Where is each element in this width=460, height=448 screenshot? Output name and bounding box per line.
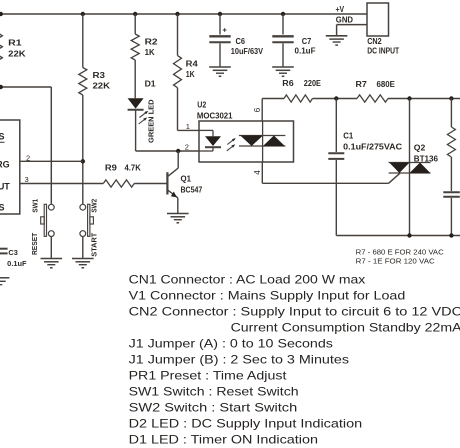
svg-text:1K: 1K	[186, 70, 195, 79]
junction dot Q2 top	[407, 96, 411, 100]
resistor R1 value 22K	[8, 50, 26, 59]
svg-text:SW2 Switch : Start Switch: SW2 Switch : Start Switch	[129, 400, 298, 414]
svg-text:S: S	[0, 132, 5, 142]
wire R9 to Q1 base	[134, 183, 167, 185]
wire U2 pin6 up	[261, 99, 263, 122]
svg-text:GREEN LED: GREEN LED	[147, 99, 156, 143]
capacitor C6 plus sign	[223, 28, 227, 32]
LED D1 label GREEN LED	[147, 99, 156, 143]
wire U2 pin4 down	[261, 162, 263, 183]
resistor R2	[131, 34, 139, 60]
svg-text:CN2: CN2	[367, 37, 382, 46]
pin 6 label U2	[253, 107, 262, 112]
svg-text:1: 1	[186, 122, 190, 131]
svg-text:R9: R9	[105, 164, 118, 173]
capacitor C7 value 0.1uF	[295, 47, 316, 56]
wire D1/Q1 to U2 pin2	[136, 150, 199, 152]
junction dot C1 top	[334, 96, 338, 100]
svg-text:BT136: BT136	[414, 154, 439, 163]
capacitor C1 value 0.1uF/275VAC	[343, 142, 402, 151]
wire rail R7 right	[388, 98, 460, 100]
switch SW2 label	[89, 199, 98, 213]
resistor R6 label	[282, 79, 294, 88]
capacitor C7 label	[302, 37, 312, 46]
switch SW1 actuator	[41, 204, 47, 236]
wire bottom rail	[336, 235, 460, 237]
pin 2 label U2	[185, 142, 189, 151]
junction dot R3 top	[81, 12, 85, 16]
capacitor C7	[272, 14, 293, 67]
pin 4 label U2	[253, 170, 262, 175]
svg-text:DC INPUT: DC INPUT	[367, 47, 399, 56]
connector CN2 box	[367, 3, 389, 36]
ground SW1	[41, 259, 63, 268]
svg-text:GND: GND	[336, 15, 353, 25]
svg-text:CN2 Connector : Supply Input t: CN2 Connector : Supply Input to circuit …	[129, 304, 460, 318]
ground SW2	[72, 259, 94, 268]
svg-text:Current Consumption Standby 22: Current Consumption Standby 22mA	[231, 320, 460, 334]
wire R4 to U2 pin1	[178, 88, 200, 131]
capacitor C6 value 10uF/63V	[231, 47, 264, 56]
transistor Q1 collector	[168, 151, 179, 176]
svg-text:C6: C6	[236, 37, 246, 46]
capacitor C1	[328, 99, 344, 236]
svg-text:680E: 680E	[377, 80, 396, 89]
svg-text:4.7K: 4.7K	[125, 164, 142, 173]
svg-text:22K: 22K	[93, 82, 111, 91]
junction dot C6 top	[218, 12, 222, 16]
svg-text:V1 Connector : Mains Supply In: V1 Connector : Mains Supply Input for Lo…	[129, 288, 406, 302]
svg-text:CN1 Connector : AC Load 200 W: CN1 Connector : AC Load 200 W max	[129, 272, 366, 286]
resistor R1 label	[8, 39, 22, 48]
diode D1 label	[145, 80, 157, 89]
svg-text:PR1 Preset : Time Adjust: PR1 Preset : Time Adjust	[129, 368, 288, 382]
switch SW2 actuator	[88, 204, 94, 236]
wire U2 pin4 to Q2 gate	[262, 173, 400, 183]
svg-text:0.1uF: 0.1uF	[7, 259, 27, 268]
svg-text:U2: U2	[197, 101, 206, 110]
resistor R7 label	[356, 80, 368, 89]
svg-text:R7 - 680 E FOR 240 VAC: R7 - 680 E FOR 240 VAC	[356, 247, 444, 256]
svg-text:4: 4	[253, 170, 262, 175]
svg-text:R4: R4	[186, 60, 199, 69]
pin 3 label U1	[25, 175, 29, 184]
svg-text:START: START	[89, 232, 98, 256]
connector CN2 value DC INPUT	[367, 47, 399, 56]
svg-text:BC547: BC547	[181, 186, 203, 195]
wire SW1 to ground	[50, 237, 52, 259]
svg-text:3: 3	[25, 175, 29, 184]
svg-text:J1 Jumper (B) : 2 Sec to 3 Min: J1 Jumper (B) : 2 Sec to 3 Minutes	[129, 352, 349, 366]
resistor R9	[103, 180, 134, 187]
svg-text:D1: D1	[145, 80, 157, 89]
resistor R2 label	[145, 38, 159, 47]
svg-text:6: 6	[253, 107, 262, 112]
ground C3 (cut off)	[0, 278, 9, 285]
junction dot R1 bottom	[0, 85, 3, 89]
svg-text:UT: UT	[0, 182, 10, 192]
svg-text:0.1uF/275VAC: 0.1uF/275VAC	[343, 142, 402, 151]
svg-text:22K: 22K	[8, 50, 26, 59]
resistor R6 value 220E	[304, 79, 322, 88]
svg-text:R7: R7	[356, 80, 368, 89]
capacitor C6	[209, 14, 230, 67]
resistor R7 value 680E	[377, 80, 396, 89]
wire R2 top lead	[134, 14, 136, 34]
svg-text:220E: 220E	[304, 79, 322, 88]
wire rail R6 left	[262, 98, 284, 100]
wire top +V rail	[0, 13, 367, 15]
resistor snubber (cut off)	[447, 99, 455, 192]
svg-text:SW1 Switch : Reset Switch: SW1 Switch : Reset Switch	[129, 384, 299, 398]
U1 pin label DIS	[0, 132, 5, 143]
resistor R7	[357, 95, 388, 102]
resistor R4	[174, 56, 182, 88]
transistor Q1 label	[181, 175, 192, 184]
resistor R3 label	[93, 71, 106, 80]
svg-text:R1: R1	[8, 39, 22, 48]
U1 pin label TRG	[0, 160, 10, 170]
svg-text:R3: R3	[93, 71, 106, 80]
junction dot Q2 bottom	[407, 233, 411, 237]
ground C6	[209, 67, 231, 76]
resistor R9 value 4.7K	[125, 164, 142, 173]
resistor R4 label	[186, 60, 199, 69]
svg-text:C7: C7	[302, 37, 312, 46]
wire D1 cathode down	[135, 111, 137, 151]
U2 internal light arrows	[227, 138, 236, 151]
switch SW1 label RESET	[30, 232, 39, 255]
resistor R6	[284, 95, 313, 102]
wire U1 pin3 OUT to R9	[20, 183, 104, 185]
svg-text:MOC3021: MOC3021	[197, 112, 233, 121]
svg-text:C3: C3	[8, 248, 17, 257]
capacitor C1 label	[343, 132, 354, 141]
pin 1 label U2	[186, 122, 190, 131]
switch SW2 label START	[89, 232, 98, 256]
junction dot Q1 collector node	[176, 149, 180, 153]
svg-text:+V: +V	[336, 4, 345, 14]
resistor R3	[79, 68, 87, 96]
resistor R1 (cut off at edge)	[0, 14, 2, 87]
svg-text:R7 - 1E FOR 120 VAC: R7 - 1E FOR 120 VAC	[356, 257, 435, 266]
op-amp U1 timer IC box (cut off)	[0, 120, 20, 214]
junction dot pin2 node	[81, 159, 85, 163]
switch SW2 contacts	[80, 204, 86, 236]
svg-text:D1 LED : Timer ON Indication: D1 LED : Timer ON Indication	[129, 432, 318, 446]
opto-isolator U2 value MOC3021	[197, 112, 233, 121]
opto-isolator U2 box	[199, 121, 294, 162]
transistor Q1 value BC547	[181, 186, 203, 195]
resistor R2 value 1K	[145, 48, 155, 57]
svg-text:0.1uF: 0.1uF	[295, 47, 316, 56]
triac Q2	[389, 99, 431, 236]
junction dot R2 top	[133, 12, 137, 16]
capacitor snubber (cut off)	[443, 192, 460, 235]
note R7 120VAC	[356, 257, 435, 266]
svg-text:Q1: Q1	[181, 175, 192, 184]
transistor Q1 base bar	[166, 172, 168, 194]
wire rail R6-R7	[313, 98, 358, 100]
junction dot snubber bottom	[449, 233, 453, 237]
caption text block	[129, 272, 460, 446]
wire R3 bottom to SW2	[82, 95, 84, 204]
resistor R4 value 1K	[186, 70, 195, 79]
capacitor C3 label	[8, 248, 17, 257]
junction dot C7 top	[281, 12, 285, 16]
svg-text:C1: C1	[343, 132, 354, 141]
svg-text:RESET: RESET	[30, 232, 39, 255]
wire U1 pin2 to R3 node	[20, 160, 83, 162]
svg-text:R6: R6	[282, 79, 294, 88]
node GND label	[336, 15, 353, 25]
triac Q2 value BT136	[414, 154, 439, 163]
ground GND symbol	[326, 36, 348, 45]
wire SW2 to ground	[82, 237, 84, 259]
wire GND to CN2	[337, 24, 367, 26]
resistor R9 label	[105, 164, 118, 173]
transistor Q1 emitter	[168, 190, 178, 213]
svg-text:R2: R2	[145, 38, 159, 47]
ground C7	[272, 67, 294, 76]
note R7 240VAC	[356, 247, 444, 256]
svg-text:S: S	[0, 203, 5, 213]
node +V label	[336, 4, 345, 14]
junction dot R4 top	[175, 12, 179, 16]
capacitor C3 (cut off)	[0, 249, 8, 254]
svg-text:SW1: SW1	[31, 199, 40, 213]
resistor R3 value 22K	[93, 82, 111, 91]
svg-text:RG: RG	[0, 160, 10, 170]
U1 pin label CV	[0, 203, 5, 213]
junction dot snubber top	[449, 96, 453, 100]
wire GND down	[336, 25, 338, 36]
LED D1 green	[128, 98, 144, 110]
triac Q2 label	[414, 144, 426, 153]
svg-text:2: 2	[185, 142, 189, 151]
U1 pin label OUT	[0, 182, 10, 192]
wire R1 bottom to SW1	[0, 87, 51, 204]
switch SW1 contacts	[48, 204, 54, 236]
svg-text:SW2: SW2	[89, 199, 98, 213]
connector CN2 label	[367, 37, 382, 46]
capacitor C3 value 0.1uF	[7, 259, 27, 268]
LED D1 emission arrows	[139, 111, 149, 124]
wire R3 top lead	[82, 14, 84, 68]
ground Q1 emitter	[167, 214, 189, 223]
capacitor C6 label	[236, 37, 246, 46]
U2 internal phototriac	[239, 121, 286, 162]
svg-text:Q2: Q2	[414, 144, 426, 153]
wire R2 to D1	[134, 60, 136, 98]
svg-text:J1 Jumper (A) : 0 to 10 Second: J1 Jumper (A) : 0 to 10 Seconds	[129, 336, 333, 350]
opto-isolator U2 label	[197, 101, 206, 110]
svg-text:D2 LED : DC Supply Input Indic: D2 LED : DC Supply Input Indication	[129, 416, 363, 430]
svg-text:10uF/63V: 10uF/63V	[231, 47, 264, 56]
junction dot R1 top	[0, 12, 3, 16]
svg-text:1K: 1K	[145, 48, 155, 57]
pin 2 label U1	[26, 153, 30, 162]
switch SW1 label	[31, 199, 40, 213]
U2 internal LED	[199, 130, 221, 151]
wire R4 top lead	[177, 14, 179, 56]
